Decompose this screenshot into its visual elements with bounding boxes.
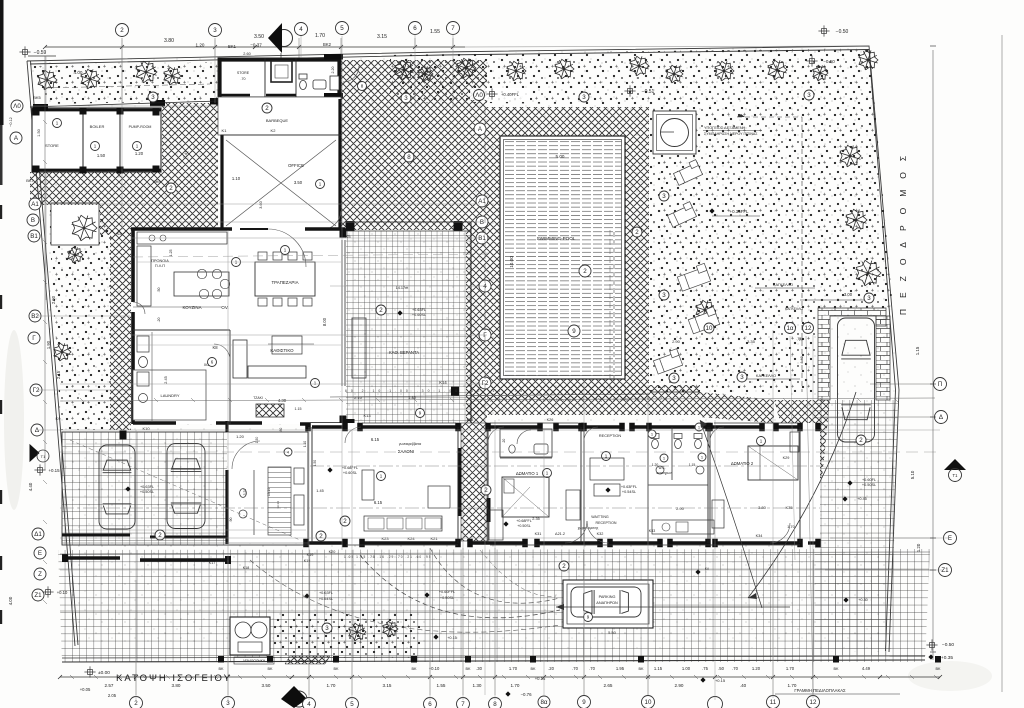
svg-text:Δ: Δ bbox=[939, 414, 943, 421]
main house west wall bbox=[131, 229, 135, 302]
svg-text:2.57: 2.57 bbox=[105, 683, 114, 688]
svg-text:4.00: 4.00 bbox=[8, 596, 13, 605]
svg-text:1.15: 1.15 bbox=[915, 346, 920, 355]
garden stipple strip left side bbox=[48, 205, 112, 430]
svg-text:1.70: 1.70 bbox=[509, 666, 518, 671]
grid line through left block bbox=[45, 56, 47, 300]
svg-text:ΒΚ1: ΒΚ1 bbox=[228, 44, 237, 49]
svg-text:OFFICE: OFFICE bbox=[288, 163, 304, 168]
bubble 2 right driveway bbox=[856, 435, 866, 445]
svg-text:Κ10: Κ10 bbox=[142, 426, 150, 431]
grid bubble E left bbox=[34, 547, 46, 559]
kitchen island with stools bbox=[174, 272, 229, 296]
living east opening posts bbox=[340, 229, 347, 238]
bubble 3 garden left bbox=[401, 93, 411, 103]
svg-text:−0.12: −0.12 bbox=[9, 117, 13, 127]
svg-text:Κ24: Κ24 bbox=[407, 536, 415, 541]
svg-text:1.15: 1.15 bbox=[689, 463, 696, 467]
svg-text:4: 4 bbox=[307, 701, 311, 708]
construction grid horizontals bbox=[45, 203, 480, 205]
bubble 3 garden mid bbox=[659, 191, 669, 201]
outbuilding block outline bbox=[32, 108, 161, 172]
svg-text:5: 5 bbox=[340, 25, 344, 32]
svg-text:Δ21.2: Δ21.2 bbox=[555, 532, 565, 536]
svg-text:1.20: 1.20 bbox=[752, 666, 761, 671]
svg-text:+0.60FL: +0.60FL bbox=[862, 478, 876, 482]
grid bubble Delta left bbox=[31, 424, 43, 436]
svg-text:2.65: 2.65 bbox=[604, 683, 613, 688]
svg-text:Κ33: Κ33 bbox=[649, 529, 655, 533]
grid bubble 7 top bbox=[447, 22, 460, 35]
door arcs south wing bbox=[345, 427, 361, 443]
svg-text:+0.50SL: +0.50SL bbox=[140, 490, 154, 494]
salon window sill lines bbox=[346, 544, 458, 546]
svg-text:3.35: 3.35 bbox=[747, 339, 756, 344]
svg-text:−0.50: −0.50 bbox=[823, 59, 835, 64]
construction grid verticals bbox=[121, 40, 123, 230]
svg-text:Κ23: Κ23 bbox=[381, 536, 389, 541]
svg-text:3: 3 bbox=[151, 94, 155, 101]
laundry room bbox=[133, 370, 206, 420]
svg-text:3: 3 bbox=[213, 27, 217, 34]
site boundary double line bbox=[27, 46, 899, 652]
room bubbles left block bbox=[53, 119, 62, 128]
wc block fixtures bbox=[652, 439, 659, 448]
svg-text:3.15: 3.15 bbox=[377, 34, 387, 40]
bubble 2 barbecue bbox=[262, 103, 272, 113]
svg-text:Κ14: Κ14 bbox=[439, 380, 447, 385]
svg-text:1.40: 1.40 bbox=[408, 395, 417, 400]
north outbuilding store/bath outline bbox=[218, 58, 341, 97]
main house south wall bbox=[133, 421, 176, 425]
grid bubble Z left bbox=[34, 568, 46, 580]
svg-text:3: 3 bbox=[226, 700, 230, 707]
svg-text:ΠΕΖΟΔΡΟΜΟΣ: ΠΕΖΟΔΡΟΜΟΣ bbox=[898, 145, 908, 315]
svg-text:1.15: 1.15 bbox=[295, 407, 302, 411]
svg-text:ΔΩΜΑΤΙΟ 1: ΔΩΜΑΤΙΟ 1 bbox=[516, 471, 539, 476]
svg-text:.50: .50 bbox=[157, 288, 161, 293]
svg-text:B: B bbox=[480, 219, 484, 226]
bottom bubble guide lines bbox=[135, 580, 137, 695]
svg-text:Κ26: Κ26 bbox=[547, 418, 554, 422]
svg-text:Τ1: Τ1 bbox=[41, 454, 46, 459]
svg-text:Κ9: Κ9 bbox=[56, 416, 62, 421]
svg-text:2.35: 2.35 bbox=[532, 517, 539, 521]
level labels bottom band bbox=[605, 487, 610, 492]
svg-text:4.30: 4.30 bbox=[278, 398, 287, 403]
svg-text:2: 2 bbox=[562, 563, 566, 570]
svg-text:2: 2 bbox=[635, 229, 639, 236]
garden fence dashed lines bbox=[737, 116, 802, 118]
svg-text:RECEPTION: RECEPTION bbox=[599, 434, 621, 438]
bubble 3 right garden bbox=[804, 90, 814, 100]
level marker -0.51 bbox=[624, 85, 635, 96]
svg-text:11: 11 bbox=[770, 699, 777, 706]
svg-text:ΒΚ: ΒΚ bbox=[465, 667, 471, 671]
svg-text:10: 10 bbox=[645, 699, 652, 706]
svg-text:Κ2: Κ2 bbox=[271, 128, 277, 133]
svg-text:−0.50: −0.50 bbox=[942, 642, 954, 648]
svg-text:+0.63FL: +0.63FL bbox=[412, 308, 426, 312]
svg-text:Z1: Z1 bbox=[34, 592, 42, 599]
svg-text:3.20: 3.20 bbox=[243, 489, 247, 496]
bottom dimension line bbox=[60, 676, 940, 678]
svg-text:Λ0: Λ0 bbox=[13, 103, 21, 110]
svg-text:8: 8 bbox=[407, 154, 411, 161]
kerb line mid garden bbox=[650, 391, 700, 393]
level markers right bottom bbox=[926, 639, 937, 650]
south wing north wall bbox=[312, 425, 345, 428]
svg-text:1.20: 1.20 bbox=[135, 151, 144, 156]
svg-text:4: 4 bbox=[483, 283, 487, 290]
svg-text:2.60: 2.60 bbox=[243, 52, 250, 56]
pool filter unit bbox=[653, 111, 696, 154]
svg-text:2.90: 2.90 bbox=[51, 295, 56, 304]
svg-text:Κ17: Κ17 bbox=[209, 561, 215, 565]
barbecue terrace strip bbox=[218, 97, 341, 135]
level marker -0.50 right bbox=[818, 25, 829, 36]
hall door arc bbox=[232, 441, 260, 469]
svg-text:Γ2: Γ2 bbox=[482, 380, 489, 387]
svg-text:1.55: 1.55 bbox=[437, 683, 446, 688]
tiled right driveway bbox=[815, 400, 898, 655]
svg-text:B: B bbox=[31, 217, 35, 224]
room1 bathroom strip bbox=[500, 429, 552, 457]
svg-text:+0.15: +0.15 bbox=[447, 636, 457, 640]
svg-text:3.50: 3.50 bbox=[262, 683, 271, 688]
svg-text:2: 2 bbox=[265, 105, 269, 112]
svg-text:RECEPTION: RECEPTION bbox=[596, 521, 617, 525]
garden stipple region top-right bbox=[390, 48, 875, 107]
svg-text:6: 6 bbox=[413, 25, 417, 32]
grid bubble B1 left bbox=[28, 230, 40, 242]
bottom grid bubbles bbox=[130, 697, 143, 708]
tiled veranda bbox=[346, 231, 471, 428]
svg-text:B2: B2 bbox=[31, 313, 39, 320]
crosshatch band south of garden bbox=[466, 385, 700, 415]
office room bbox=[221, 135, 341, 230]
svg-text:ΚΑΓΚΕΛΛΟ: ΚΑΓΚΕΛΛΟ bbox=[773, 283, 793, 287]
tick marks bottom dimension bbox=[70, 675, 74, 679]
svg-text:ΠΡΟΝΟΙΑ: ΠΡΟΝΟΙΑ bbox=[151, 259, 169, 263]
svg-text:3.60: 3.60 bbox=[259, 201, 263, 208]
svg-text:ΣΕΥΛΙΘΙΚΗ: ΣΕΥΛΙΘΙΚΗ bbox=[299, 659, 315, 663]
bubble 3 garden right bbox=[579, 92, 589, 102]
svg-text:ΚΑΘ. ΒΕΡΑΝΤΑ: ΚΑΘ. ΒΕΡΑΝΤΑ bbox=[389, 350, 419, 355]
main house floor bbox=[131, 229, 345, 424]
svg-text:Κ3: Κ3 bbox=[117, 231, 123, 236]
level marker +0.35FFL garden bbox=[709, 208, 714, 213]
south wing posts bbox=[305, 423, 311, 432]
svg-text:WAITTING: WAITTING bbox=[591, 515, 609, 519]
svg-text:OV.: OV. bbox=[221, 305, 228, 310]
svg-text:1.70: 1.70 bbox=[315, 33, 325, 39]
grid lines vertical thin from top bubbles bbox=[121, 38, 123, 103]
svg-text:+0.15: +0.15 bbox=[715, 678, 726, 683]
svg-text:1.70: 1.70 bbox=[786, 666, 795, 671]
svg-text:Λ0: Λ0 bbox=[475, 92, 483, 99]
svg-text:+0.54SL: +0.54SL bbox=[622, 490, 636, 494]
office door arc bbox=[322, 211, 341, 230]
grid bubble Z1 right bbox=[939, 564, 952, 577]
svg-text:3: 3 bbox=[582, 94, 586, 101]
dimension line right side vertical bbox=[932, 50, 934, 660]
svg-text:ΒΚ5: ΒΚ5 bbox=[33, 95, 41, 100]
bubble 2 garden left bbox=[632, 227, 642, 237]
main house north wall bbox=[131, 227, 232, 231]
crosshatch frame around swimming pool bbox=[487, 107, 649, 400]
svg-text:3.50: 3.50 bbox=[254, 34, 264, 40]
svg-text:Κ35: Κ35 bbox=[785, 505, 793, 510]
left boundary dimension ticks bbox=[43, 120, 47, 124]
svg-text:ΣΑΛΟΝΙ: ΣΑΛΟΝΙ bbox=[398, 449, 414, 454]
garage cars bbox=[99, 445, 135, 529]
svg-text:+0.15: +0.15 bbox=[535, 676, 546, 681]
svg-text:10: 10 bbox=[706, 325, 713, 332]
grid line bubble 12 vertical bbox=[806, 336, 813, 694]
svg-text:8α: 8α bbox=[540, 699, 547, 706]
wardrobes rooms bbox=[489, 510, 503, 540]
svg-text:E: E bbox=[38, 550, 42, 557]
svg-text:ΒΚ: ΒΚ bbox=[638, 667, 644, 671]
svg-text:12: 12 bbox=[805, 325, 812, 332]
svg-text:Κ21: Κ21 bbox=[430, 536, 438, 541]
svg-text:3.80: 3.80 bbox=[758, 505, 767, 510]
svg-text:ΒΚ9: ΒΚ9 bbox=[153, 179, 161, 184]
svg-text:−0.50: −0.50 bbox=[836, 29, 849, 35]
svg-text:8.00: 8.00 bbox=[322, 317, 327, 326]
long guide arrow left bbox=[556, 606, 790, 608]
crosshatch strip between salon and room1 bbox=[461, 423, 485, 541]
svg-text:−0.51: −0.51 bbox=[642, 89, 655, 95]
svg-text:ΒΚ: ΒΚ bbox=[935, 667, 941, 671]
level label A0 +0.40FFL bbox=[470, 88, 530, 100]
salon sofas bbox=[364, 516, 442, 531]
svg-text:1.20: 1.20 bbox=[236, 434, 245, 439]
svg-text:ΚΑΤΟΨΗ ΙΣΟΓΕΙΟΥ: ΚΑΤΟΨΗ ΙΣΟΓΕΙΟΥ bbox=[116, 673, 232, 684]
svg-text:2.15: 2.15 bbox=[56, 370, 61, 379]
svg-text:E: E bbox=[948, 535, 952, 542]
svg-text:Κ1: Κ1 bbox=[222, 128, 228, 133]
site terrace wall below garage bbox=[62, 556, 120, 559]
svg-text:3.80: 3.80 bbox=[164, 38, 174, 44]
svg-text:5.10: 5.10 bbox=[910, 470, 915, 479]
pennant marker top bbox=[276, 30, 293, 47]
office desk diagonals bbox=[226, 140, 336, 226]
planter boxes bottom-left bbox=[230, 617, 270, 655]
bubble 2 under wing bbox=[559, 561, 569, 571]
south wing floor bbox=[308, 423, 820, 545]
svg-text:1.25: 1.25 bbox=[169, 250, 173, 257]
svg-text:Κ25: Κ25 bbox=[467, 418, 474, 422]
svg-text:Π.Λ.Π: Π.Λ.Π bbox=[155, 264, 165, 268]
svg-text:1.90: 1.90 bbox=[46, 340, 51, 349]
svg-text:+0.50SL: +0.50SL bbox=[440, 596, 454, 600]
pennant bottom bbox=[291, 691, 307, 707]
svg-text:1.00 1.15 .78 .16 .29 .70 .21: 1.00 1.15 .78 .16 .29 .70 .21 .60 .95 bbox=[344, 555, 432, 559]
svg-text:+0.35FFL: +0.35FFL bbox=[730, 209, 749, 214]
level marker -0.50 right lower bbox=[806, 55, 817, 66]
svg-text:ΒΚ: ΒΚ bbox=[530, 667, 536, 671]
kitchen counters bbox=[137, 232, 227, 244]
bubble 6 laundry bbox=[208, 358, 217, 367]
crosshatch strip east of veranda bbox=[466, 222, 487, 430]
grid bubble A mid bbox=[474, 123, 486, 135]
svg-text:ΒΚ: ΒΚ bbox=[218, 667, 224, 671]
svg-text:LAUNDRY: LAUNDRY bbox=[160, 393, 179, 398]
grid bubble B2 left bbox=[29, 310, 41, 322]
svg-text:1.00: 1.00 bbox=[682, 666, 691, 671]
living coffee table bbox=[272, 336, 302, 354]
svg-text:.60 2.10 1.00 .30 1.00 .8: .60 2.10 1.00 .30 1.00 .85 .15 .75 bbox=[340, 389, 526, 393]
horizontal guide dashed lines bbox=[133, 254, 487, 257]
svg-text:BARBEQUE: BARBEQUE bbox=[266, 118, 289, 123]
grid bubble A1 left bbox=[29, 198, 41, 210]
svg-text:ΥΠΟΓΕΙΟΣ ΔΕΞΑΜΕΝΗ: ΥΠΟΓΕΙΟΣ ΔΕΞΑΜΕΝΗ bbox=[704, 126, 746, 130]
svg-text:+0.63FFL: +0.63FFL bbox=[621, 485, 637, 489]
svg-text:W.C.: W.C. bbox=[659, 466, 666, 470]
bubble 2 bottom driveway bbox=[340, 516, 350, 526]
svg-text:1.20: 1.20 bbox=[196, 43, 205, 48]
svg-text:Κ13: Κ13 bbox=[363, 413, 371, 418]
sun loungers in garden bbox=[672, 160, 702, 186]
svg-text:13.14: 13.14 bbox=[267, 488, 271, 496]
svg-text:3: 3 bbox=[662, 292, 666, 299]
svg-text:7: 7 bbox=[451, 25, 455, 32]
pennant marker left T1 bbox=[30, 445, 39, 461]
scan artifact: left black edge bar bbox=[0, 0, 4, 125]
svg-text:10.00: 10.00 bbox=[509, 256, 514, 268]
svg-text:1.50: 1.50 bbox=[255, 437, 259, 444]
disabled parking bay bbox=[563, 580, 653, 628]
svg-text:Κ31: Κ31 bbox=[535, 532, 542, 536]
trees bottom garden patch bbox=[348, 623, 366, 641]
bubble 8 small hatch bbox=[358, 82, 367, 91]
svg-text:1.30: 1.30 bbox=[473, 683, 482, 688]
tiled garage floor bbox=[62, 432, 227, 545]
svg-text:5.50: 5.50 bbox=[608, 630, 617, 635]
svg-text:.90: .90 bbox=[229, 518, 233, 523]
scan artifact: right page edge line bbox=[1001, 35, 1003, 692]
garage diagonal guide bbox=[70, 440, 300, 540]
svg-text:13.14: 13.14 bbox=[276, 501, 280, 509]
tiled bottom driveway band bbox=[58, 549, 930, 662]
svg-text:+0.50SL: +0.50SL bbox=[862, 483, 876, 487]
svg-text:2.45: 2.45 bbox=[164, 376, 168, 383]
svg-text:+0.35: +0.35 bbox=[941, 655, 953, 661]
svg-text:ΒΚ: ΒΚ bbox=[267, 667, 273, 671]
grid bubble D1 left bbox=[32, 528, 44, 540]
svg-text:+0.10: +0.10 bbox=[57, 590, 68, 595]
kitchen partition bbox=[133, 329, 230, 331]
grid bubble Delta right bbox=[935, 411, 948, 424]
svg-text:4: 4 bbox=[299, 26, 303, 33]
svg-text:7: 7 bbox=[461, 701, 465, 708]
window sills wing north bbox=[362, 422, 456, 424]
svg-text:BOILER: BOILER bbox=[90, 124, 105, 129]
garden dimension chain bbox=[609, 230, 611, 390]
door arcs wing south wall bbox=[565, 521, 587, 543]
svg-text:.20: .20 bbox=[502, 439, 506, 444]
svg-text:4.00: 4.00 bbox=[74, 70, 83, 75]
dimension chain mid drawing bbox=[330, 394, 650, 397]
svg-text:SWIMMING-POOL: SWIMMING-POOL bbox=[537, 236, 576, 241]
svg-text:2: 2 bbox=[120, 27, 124, 34]
svg-text:2.05: 2.05 bbox=[108, 693, 117, 698]
turning radius arcs bbox=[360, 555, 560, 618]
svg-text:5: 5 bbox=[350, 701, 354, 708]
outbuilding walls bbox=[32, 109, 161, 112]
svg-text:14.17m: 14.17m bbox=[396, 286, 409, 290]
crosshatch wedge near carport bbox=[774, 400, 830, 478]
garage south wall bbox=[62, 534, 130, 537]
stair hall treads bbox=[268, 467, 291, 535]
svg-text:.70: .70 bbox=[589, 666, 595, 671]
grid bubble 4 top bbox=[295, 23, 308, 36]
svg-text:3: 3 bbox=[672, 375, 676, 382]
svg-text:Κ18: Κ18 bbox=[243, 566, 249, 570]
level marks bottom middle bbox=[505, 691, 510, 696]
pennant marker right T1 bbox=[944, 459, 966, 470]
curved guide arrow down bbox=[748, 392, 856, 598]
svg-text:ΚΟΥΖΙΝΑ: ΚΟΥΖΙΝΑ bbox=[183, 305, 202, 310]
svg-text:+0.40: +0.40 bbox=[858, 598, 868, 602]
centerline dash-dot horizontal bbox=[60, 507, 820, 509]
svg-text:.75: .75 bbox=[796, 337, 801, 341]
dimension line left side vertical bbox=[44, 56, 46, 470]
shower cubicle bbox=[271, 61, 292, 82]
svg-text:9: 9 bbox=[572, 328, 576, 335]
svg-text:Κ8: Κ8 bbox=[212, 345, 218, 350]
svg-text:+0.60SL: +0.60SL bbox=[343, 471, 357, 475]
svg-text:1.15: 1.15 bbox=[654, 666, 663, 671]
svg-text:8: 8 bbox=[493, 701, 497, 708]
svg-text:1.20: 1.20 bbox=[916, 543, 921, 552]
grid bubble Pi right bbox=[934, 378, 947, 391]
carport car bbox=[838, 318, 875, 442]
driveway horizontal emphasis lines bbox=[60, 552, 930, 554]
svg-text:2: 2 bbox=[343, 518, 347, 525]
outbuilding wc fixtures bbox=[300, 80, 307, 89]
crosshatch strip between salon and room1 repaint bbox=[461, 423, 487, 541]
svg-text:3.15: 3.15 bbox=[383, 683, 392, 688]
svg-text:2: 2 bbox=[859, 437, 863, 444]
svg-text:+0.45: +0.45 bbox=[857, 497, 867, 501]
svg-text:−0.59: −0.59 bbox=[34, 50, 47, 56]
svg-text:STORE: STORE bbox=[237, 71, 250, 75]
dining table with chairs bbox=[255, 262, 315, 296]
top dimension line bbox=[45, 46, 465, 48]
svg-text:+0.68FFL: +0.68FFL bbox=[342, 466, 358, 470]
living sofa set bbox=[352, 318, 366, 378]
svg-text:.50: .50 bbox=[718, 666, 724, 671]
garage outline bbox=[62, 432, 308, 545]
south wing partitions bbox=[311, 427, 313, 543]
bubbles in garden bbox=[659, 290, 669, 300]
room1 bed bbox=[502, 477, 549, 517]
south wing south wall bbox=[306, 541, 345, 544]
svg-text:γωνιακρεββατια: γωνιακρεββατια bbox=[399, 442, 422, 446]
svg-text:−0.76: −0.76 bbox=[520, 692, 532, 697]
grid bubble Gamma left bbox=[28, 332, 40, 344]
svg-text:1.10: 1.10 bbox=[232, 176, 241, 181]
extra door arcs house bbox=[268, 229, 306, 267]
svg-text:Δ: Δ bbox=[35, 427, 39, 434]
svg-text:2.20: 2.20 bbox=[331, 67, 335, 74]
svg-text:5.00: 5.00 bbox=[556, 154, 565, 159]
vertical chain at veranda bbox=[484, 107, 486, 395]
svg-text:1.20: 1.20 bbox=[652, 463, 659, 467]
